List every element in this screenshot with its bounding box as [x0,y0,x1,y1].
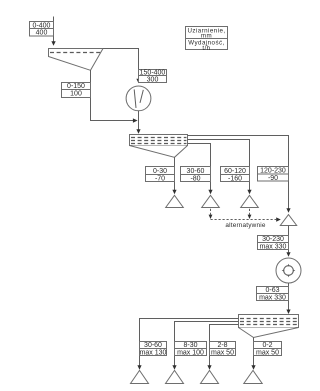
svg-text:max 50: max 50 [256,350,279,357]
svg-text:100: 100 [70,91,82,98]
box 0-150/100 [62,83,91,98]
wire crusher K2 discharge into screen S3 [286,283,290,314]
wire S1 underflow 0-150 merge [91,70,138,123]
box 30-230/max 330 [258,236,289,251]
wire S3 deck1 to node 30-60 [137,319,238,370]
svg-text:-90: -90 [268,175,278,182]
svg-text:0-400: 0-400 [33,22,51,29]
dashed alternative route from T3 [248,209,252,219]
svg-text:30-60: 30-60 [144,342,162,349]
svg-text:-70: -70 [155,175,165,182]
svg-text:max 330: max 330 [259,295,286,302]
box 8-30/max 100 [175,342,207,357]
wire crusher K1 discharge into screen S2 [136,111,140,134]
wire S2 underflow to node 0-30 [172,157,176,194]
wire feed into screen S1 [51,17,55,46]
stockpile triangle T2 [202,195,220,207]
screen S3 [239,315,299,338]
wire S2 deck3 to node 30-60 [188,144,213,195]
crusher K2 (cone) [276,258,301,283]
dashed wire to T4 (alternatywnie) [211,217,281,229]
svg-text:400: 400 [36,30,48,37]
stockpile triangle T5 [131,370,149,383]
svg-text:mm: mm [201,33,212,40]
stockpile triangle T4 [280,215,296,226]
svg-text:30-230: 30-230 [262,236,284,243]
stockpile triangle T6 [166,370,184,383]
crusher K1 (jaw) [126,86,151,111]
svg-text:max 100: max 100 [177,350,204,357]
box 120-230/-90 [258,167,289,182]
screen S2 [130,135,188,158]
svg-text:8-30: 8-30 [183,342,197,349]
legend box Uziarnienie/Wydajnosc [186,27,228,52]
box 0-400/400 [30,22,54,37]
box 30-60/max 130 [140,342,167,357]
svg-text:alternatywnie: alternatywnie [225,222,266,229]
svg-text:300: 300 [147,76,159,83]
svg-text:0-63: 0-63 [265,287,279,294]
box 150-400/300 [139,70,167,84]
wire S3 deck2 to node 8-30 [172,322,238,370]
svg-text:t/h: t/h [202,45,210,52]
svg-text:-80: -80 [190,175,200,182]
stockpile triangle T3 [241,195,259,207]
svg-text:0-30: 0-30 [153,168,167,175]
stockpile triangle T1 [166,195,184,207]
svg-text:30-60: 30-60 [187,168,205,175]
wire S2 deck1 to node 120-230 [188,136,291,213]
wire S3 underflow to node 0-2 [251,338,255,370]
svg-text:max 130: max 130 [140,350,167,357]
wire S2 deck2 to node 60-120 [188,140,252,195]
box 0-2/max 50 [254,342,282,357]
box 60-120/-160 [221,167,250,183]
svg-text:2-8: 2-8 [217,342,227,349]
svg-text:-160: -160 [228,175,242,182]
stockpile triangle T8 [244,370,262,383]
wire S1 overflow to crusher K1 [103,49,141,84]
stockpile triangle T7 [201,370,219,383]
box 0-30/-70 [146,167,175,183]
box 2-8/max 50 [210,342,236,357]
svg-text:120-230: 120-230 [260,168,286,175]
box 0-63/max 330 [257,287,289,302]
wire T4 to crusher K2 [286,226,290,257]
svg-text:max 50: max 50 [211,350,234,357]
svg-text:60-120: 60-120 [224,168,246,175]
svg-text:0-150: 0-150 [67,83,85,90]
box 30-60/-80 [181,167,211,183]
svg-text:max 330: max 330 [260,244,287,251]
svg-text:0-2: 0-2 [262,342,272,349]
wire S3 deck3 to node 2-8 [207,325,238,370]
screen S1 [49,49,104,71]
dashed alternative route from T2 [209,209,213,219]
